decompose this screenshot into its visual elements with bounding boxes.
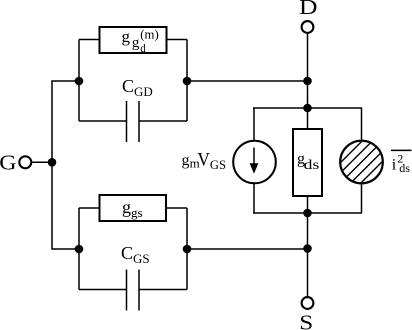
wire right CGS node to S bus: [187, 248, 308, 250]
wire top rail left of g_gs: [79, 207, 100, 209]
svg-text:GS: GS: [210, 157, 226, 172]
value label g_gd(m): [122, 27, 159, 55]
wire current-source branch top: [253, 108, 255, 141]
wire gds branch top: [307, 108, 309, 129]
wire to S terminal: [307, 249, 309, 297]
node right CGD junction: [183, 77, 192, 86]
svg-text:g: g: [132, 35, 140, 51]
wire left vertical of CGS group: [78, 208, 80, 290]
node S junction: [303, 244, 312, 253]
wire CGD bottom rail right: [139, 120, 187, 122]
wire top rail left of resistor: [79, 39, 100, 41]
wire top rail right of resistor: [167, 39, 188, 41]
svg-text:i: i: [392, 156, 397, 173]
wire right vertical of CGS group: [186, 208, 188, 290]
svg-text:CGD: CGD: [122, 76, 153, 99]
svg-text:ds: ds: [399, 161, 410, 175]
resistor g_gs box: [100, 195, 167, 221]
svg-text:ds: ds: [304, 157, 320, 172]
wire CGD bottom rail left: [79, 120, 127, 122]
wire noise-source branch bottom: [361, 183, 363, 213]
svg-text:ggs: ggs: [122, 197, 143, 220]
wire S bus node to terminal: [307, 213, 309, 249]
wire gds branch bottom: [307, 196, 309, 213]
terminal S: [302, 297, 314, 309]
svg-text:(m): (m): [140, 28, 158, 42]
node left CGS junction: [75, 245, 84, 254]
svg-text:D: D: [299, 0, 318, 19]
wire node to parallel-group top: [307, 81, 309, 108]
svg-text:G: G: [0, 151, 16, 175]
terminal G: [19, 156, 31, 168]
value label gmVGS: [182, 149, 227, 171]
svg-text:d: d: [140, 41, 146, 55]
wire G vertical bus: [52, 81, 79, 249]
resistor gds box: [293, 129, 322, 196]
wire output group bottom rail: [253, 212, 362, 214]
svg-text:V: V: [197, 149, 210, 170]
node at top rail: [303, 104, 312, 113]
svg-text:S: S: [299, 311, 313, 330]
wire CGS bottom rail left: [79, 289, 127, 291]
svg-text:g: g: [122, 27, 131, 46]
node G junction: [48, 158, 57, 167]
wire current-source branch bottom: [253, 183, 255, 213]
wire right vertical of CGD group: [186, 40, 188, 122]
current source gmVGS circle: [233, 141, 276, 184]
wire G terminal to node: [32, 161, 52, 163]
wire left vertical of CGD group: [78, 40, 80, 122]
wire right CGD node to D bus: [187, 80, 308, 82]
resistor g_gd(m) box: [100, 27, 167, 53]
node right CGS junction: [183, 245, 192, 254]
node left CGD junction: [75, 77, 84, 86]
wire top rail right of g_gs: [166, 207, 187, 209]
value label gds: [297, 151, 319, 172]
noise source ids2 circle (hatched): [325, 126, 398, 199]
current source arrow: [253, 148, 255, 167]
svg-text:CGS: CGS: [121, 243, 150, 266]
wire output group top rail: [253, 107, 362, 109]
node at D/CGD junction: [303, 77, 312, 86]
wire noise-source branch top: [361, 108, 363, 141]
wire CGS bottom rail right: [139, 289, 187, 291]
terminal D: [302, 21, 314, 33]
capacitor CGD plates: [126, 101, 128, 142]
wire D terminal to node: [307, 34, 309, 81]
capacitor CGS plates: [126, 270, 128, 311]
svg-text:g: g: [182, 152, 190, 169]
value label ids2 with overline: [391, 150, 412, 175]
node bottom rail junction: [303, 209, 312, 218]
